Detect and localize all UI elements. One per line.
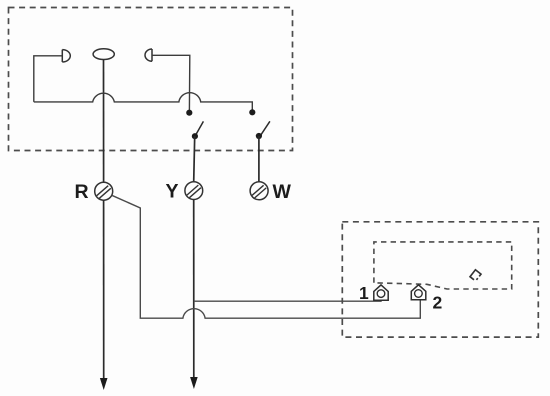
node A (junction dot) — [186, 110, 192, 116]
switch blade S1 — [195, 121, 203, 135]
wire left loop to contact — [34, 56, 62, 102]
wire S1 to terminal Y — [194, 136, 195, 182]
svg-text:1: 1 — [359, 283, 369, 303]
switch S1 pivot dot — [192, 133, 198, 139]
wire bulb to terminal R — [103, 60, 105, 183]
wire R branch to equipment terminal 2 (with hop) — [112, 195, 421, 318]
wire terminal Y down — [193, 200, 195, 378]
main wire with hops — [34, 93, 253, 111]
equipment outer dashed box — [342, 222, 538, 337]
svg-text:Y: Y — [166, 181, 179, 203]
terminal Y (screw) — [185, 182, 203, 200]
thermostat case (dashed box) — [9, 8, 293, 151]
switch S2 pivot dot — [256, 133, 262, 139]
svg-text:W: W — [273, 181, 292, 203]
contact left (D symbol) — [62, 50, 70, 62]
wire Y tap to equipment terminal 1 — [194, 297, 381, 301]
contact right (mirrored D symbol) — [145, 49, 152, 61]
terminal 1 (equipment) — [374, 285, 388, 300]
wire right contact down to node A — [152, 55, 190, 110]
relay inner dashed box — [374, 242, 512, 289]
terminal W (screw) — [250, 182, 268, 200]
wire terminal R down — [103, 200, 105, 378]
terminal 2 (equipment) — [411, 285, 426, 300]
arrow Y — [190, 377, 198, 389]
node B (junction dot) — [249, 109, 255, 115]
wire S2 to terminal W — [258, 136, 260, 182]
svg-text:2: 2 — [433, 293, 443, 313]
terminal R (screw) — [95, 182, 113, 200]
arrow R — [100, 378, 108, 390]
svg-text:R: R — [75, 181, 89, 203]
mercury bulb (ellipse) — [93, 49, 114, 60]
switch blade S2 — [261, 121, 270, 135]
clip icon (tilted open rectangle) — [470, 270, 481, 281]
